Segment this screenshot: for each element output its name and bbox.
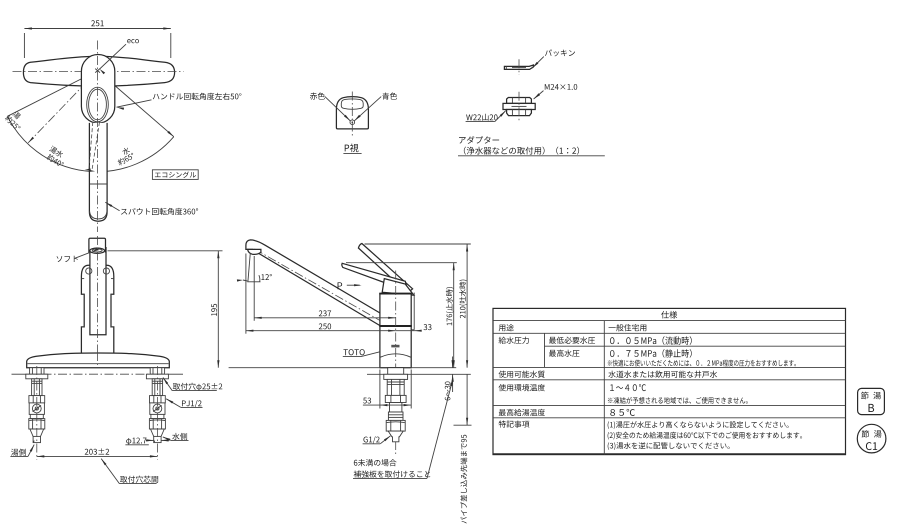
dimension 203 +-2 mounting distance (37, 455, 158, 457)
handle blade upper position (358, 244, 412, 293)
note 2 (608, 432, 802, 440)
rotated label cold approx 65deg (121, 146, 130, 155)
shank centerline cold right (156, 366, 158, 460)
table horizontal lines (493, 320, 846, 322)
ext line 210 top (365, 243, 471, 245)
dimension 237 (254, 317, 396, 319)
label red color + leader (310, 92, 325, 99)
counter dash-dot line front (12, 373, 28, 375)
label handle rotation 50 (153, 93, 242, 100)
counter bottom line side view (367, 373, 471, 375)
handle oval inner ring (89, 89, 107, 120)
spec table bottom thick border (493, 453, 846, 455)
stamp setsuyu B rounded box (858, 388, 885, 414)
base plate front view (27, 353, 170, 368)
table row max pressure (549, 350, 579, 357)
side spout centerline dash-dot (255, 249, 391, 327)
side shank through piece (388, 368, 404, 375)
side shank lower tube (390, 403, 402, 413)
adapter bottom ring (507, 110, 532, 116)
label M24x1.0 + leader (545, 84, 577, 90)
P-view centerline (351, 92, 353, 136)
label adapter (459, 136, 499, 144)
label blue color + leader (382, 92, 397, 99)
handle bar top-view outline (23, 56, 174, 86)
eco label + leader (127, 39, 139, 43)
center mark x (95, 69, 100, 73)
note 3 (608, 442, 730, 450)
P direction arrow (338, 282, 343, 289)
label spout rotation 360 + leader (121, 208, 198, 215)
shank centerline hot left (36, 366, 38, 460)
front central spout column (90, 247, 106, 335)
eco single boxed label (152, 170, 198, 180)
base inner line (28, 363, 169, 365)
body capsule top view (81, 55, 114, 124)
P-view pivot circle (350, 120, 355, 125)
dimension 6-30 counter thickness (452, 357, 454, 368)
tiny logo mark on body (391, 345, 399, 348)
deck line side view (229, 367, 457, 369)
angle 12 deg marking (248, 253, 250, 282)
dimension phi 12.7 tip (126, 438, 146, 445)
label P-view underlined (345, 144, 359, 152)
handle hub tilted cap (382, 279, 414, 296)
table note freezing (608, 397, 748, 404)
aerator under tip side view (248, 249, 261, 254)
label hot side (11, 449, 26, 456)
stamp setsuyu C1 circle (857, 424, 886, 453)
side shank rings (388, 412, 403, 420)
centerline horizontal of top view (13, 70, 184, 72)
spout tube inner bottom arc (90, 211, 107, 219)
label G1/2 + leader (363, 436, 379, 444)
aerator ellipse soft outlet (90, 248, 105, 253)
table vertical divider sub column (544, 333, 546, 367)
front body step ticks (81, 293, 84, 295)
rotated label hot approx 25deg (12, 110, 21, 119)
front center dashdot (97, 236, 99, 352)
dimension 95 pipe insertion (466, 374, 468, 425)
adapter middle ring (503, 103, 535, 109)
table row youto (499, 324, 514, 331)
dimension 250 (246, 330, 396, 332)
side shank tip G1/2 (388, 431, 403, 442)
front body silhouette (81, 265, 113, 353)
table header shiyou (661, 311, 677, 319)
small arrows on arc at spout lines (85, 168, 91, 170)
spout tube top view (89, 123, 107, 221)
centerline vertical top view (97, 41, 99, 233)
table vertical divider value column (603, 321, 605, 455)
spout joint tick (90, 183, 107, 185)
dimension 53 (379, 370, 381, 409)
dimension 210 flow height (466, 244, 468, 368)
side shank nut (385, 395, 406, 402)
ext line 176 top (346, 262, 457, 264)
handle oval outer ring (87, 87, 109, 122)
dimension 195 height (108, 250, 223, 252)
body right sleeve line (413, 293, 415, 330)
adapter top ring (507, 98, 532, 104)
body bell arc (380, 354, 411, 357)
fan line dash-dot with arrow (hot) (28, 71, 98, 143)
table row ambient temperature (499, 384, 545, 391)
label W22yama20 + leader (466, 114, 497, 121)
dimension 33 (396, 330, 422, 332)
P-view outer body (336, 97, 368, 129)
fan line hot-limit solid (7, 71, 97, 117)
adapter center cross (518, 92, 520, 122)
side shank washer (384, 374, 408, 379)
packing washer side view (504, 65, 533, 69)
side shank lower nut (386, 420, 405, 431)
handle blade lower position (342, 263, 407, 288)
TOTO label + leader (343, 349, 364, 355)
rotation arc 50deg (7, 116, 173, 171)
label adapter use, underlined (464, 147, 579, 155)
table row max hot water temp (499, 409, 545, 416)
supply shank hot left (26, 368, 48, 443)
rotated label mix approx 40deg (49, 145, 64, 158)
body top thick line (379, 293, 412, 295)
dashed spout alternative position lines (89, 122, 93, 170)
dimension 251 overall width (24, 28, 170, 30)
dimension 176 stop-water height (453, 263, 455, 368)
label cold side (172, 433, 187, 440)
body mid thick line (379, 325, 412, 327)
label mounting hole pitch + leader (120, 476, 158, 483)
note 1 (608, 421, 789, 429)
fan line solid right (cold) with arrow (98, 71, 174, 137)
table row usable water (499, 371, 545, 378)
P-view inner window (341, 99, 363, 109)
note reinforcement board + leader (354, 459, 397, 466)
label PJ1/2 (182, 400, 202, 408)
table note 0.2MPa recommended (608, 360, 796, 367)
side body column (380, 294, 411, 368)
label packing + leader (545, 49, 575, 56)
side shank threaded tube (387, 379, 404, 395)
soft label + leader (57, 256, 78, 262)
side body centerline (395, 271, 397, 456)
front spout tip tube (89, 238, 106, 252)
table row special notes (499, 420, 530, 427)
table row water pressure (499, 337, 529, 344)
side spout tube (246, 240, 390, 332)
handle pivot circles (86, 268, 92, 274)
supply shank cold right (146, 368, 168, 443)
spec table outer border (493, 308, 846, 454)
label mounting hole dia 25 (173, 383, 223, 391)
packing center cross (518, 59, 520, 75)
